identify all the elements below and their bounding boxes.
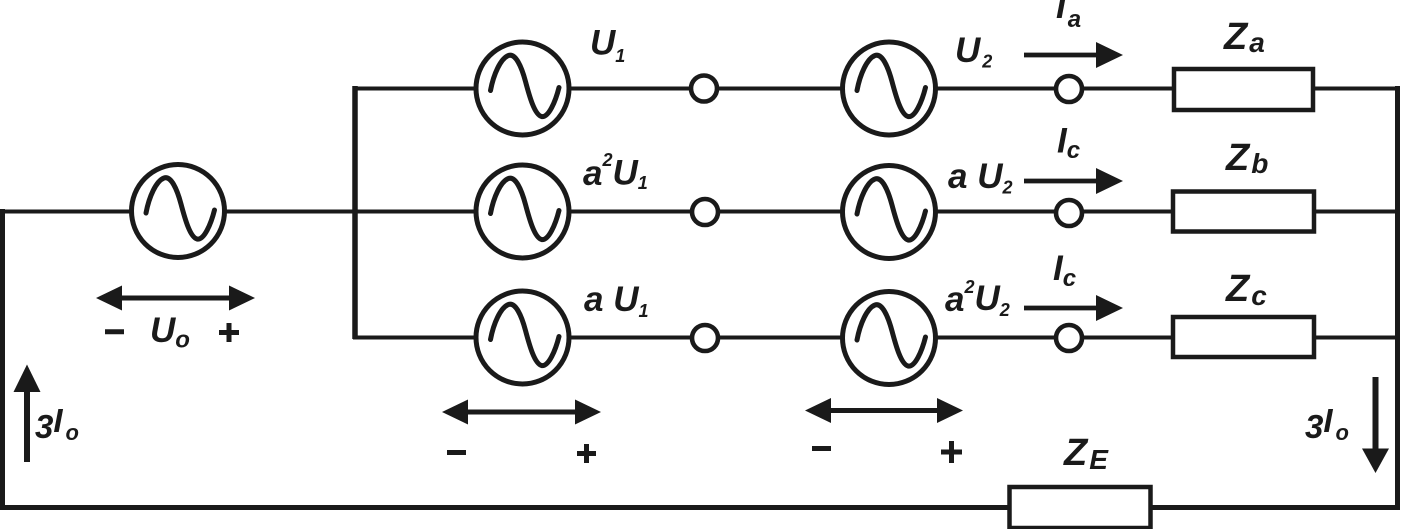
node row2 right (1056, 200, 1082, 226)
wire bus vertical (352, 86, 358, 339)
svg-text:3Io: 3Io (1305, 402, 1349, 445)
source aU2 row2 (843, 166, 936, 259)
arrow 3Io down right (1362, 377, 1389, 473)
arrow double Uo (96, 286, 255, 311)
node row2 left (692, 199, 718, 225)
svg-text:Zc: Zc (1225, 268, 1267, 311)
plus col1 (577, 444, 596, 463)
svg-text:Za: Za (1223, 16, 1265, 58)
svg-text:a U1: a U1 (584, 280, 648, 321)
svg-text:Ic: Ic (1053, 249, 1076, 292)
svg-text:ZE: ZE (1063, 432, 1109, 475)
wire row3 horizontal (353, 336, 1398, 340)
minus col2 (812, 446, 831, 451)
plus col2 (941, 441, 962, 463)
minus Uo (105, 329, 124, 334)
wire row2 horizontal (0, 210, 1398, 214)
impedance Zc box (1173, 317, 1314, 357)
plus Uo (219, 323, 239, 342)
source aU1 row3 (476, 291, 569, 384)
minus col1 (447, 450, 466, 455)
arrow 3Io up left (14, 365, 41, 463)
svg-text:Uo: Uo (150, 311, 190, 354)
source U2 row1 (843, 42, 936, 135)
wire bottom rail (0, 505, 1400, 510)
wire left rail (0, 209, 5, 508)
arrow current Ic row2 (1024, 168, 1123, 194)
impedance Za box (1174, 69, 1313, 110)
node row1 right (1056, 76, 1082, 102)
wire row1 horizontal (353, 87, 1398, 91)
arrow double col1 (442, 400, 601, 425)
impedance Zb box (1173, 192, 1314, 232)
svg-text:Ic: Ic (1057, 122, 1080, 165)
arrow current Ia row1 (1024, 42, 1123, 68)
svg-text:Zb: Zb (1225, 137, 1268, 179)
impedance ZE box (1010, 487, 1151, 528)
svg-text:Ia: Ia (1056, 0, 1081, 33)
source a2U2 row3 (843, 292, 936, 385)
arrow double col2 (805, 398, 963, 423)
node row3 left (692, 325, 718, 351)
svg-text:a2U1: a2U1 (583, 150, 648, 193)
source a2U1 row2 (476, 165, 569, 258)
wire right rail (1395, 86, 1400, 508)
source U1 row1 (476, 42, 569, 135)
svg-text:a2U2: a2U2 (945, 277, 1010, 320)
svg-text:a U2: a U2 (948, 157, 1012, 198)
arrow current Ic row3 (1024, 295, 1123, 321)
svg-text:3Io: 3Io (35, 402, 79, 445)
node row1 left (691, 76, 717, 102)
node row3 right (1056, 325, 1082, 351)
svg-text:U2: U2 (955, 31, 992, 72)
svg-text:U1: U1 (590, 24, 625, 67)
source V0 left (132, 165, 225, 258)
